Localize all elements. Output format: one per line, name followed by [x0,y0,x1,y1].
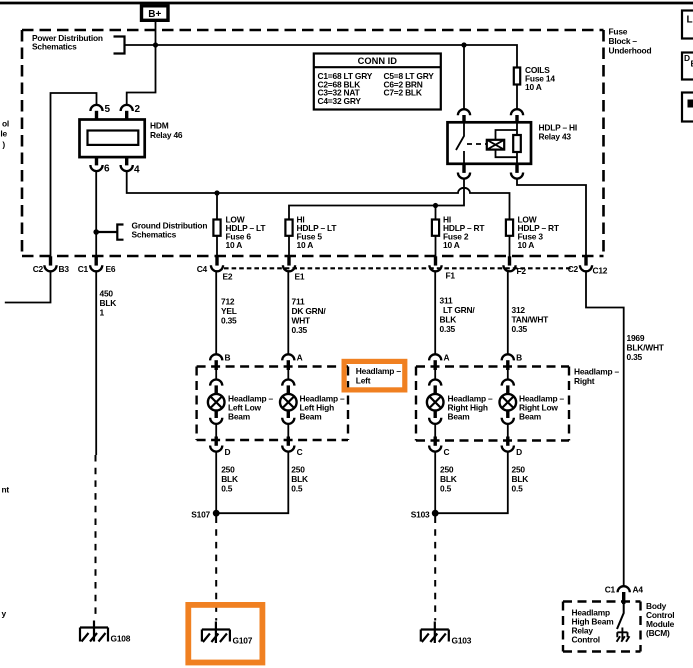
svg-text:(BCM): (BCM) [646,628,670,638]
svg-text:S103: S103 [411,510,430,520]
wire lamp left high beam to exit [287,424,289,437]
wire feed to headlamp left low beam [215,271,217,354]
relay HDM Relay 46 box [80,120,145,158]
wire pin 4 low beam feed rail [127,171,510,219]
svg-text:10 A: 10 A [525,82,542,92]
lamp left low beam [208,394,225,411]
svg-text:Beam: Beam [228,412,250,422]
connector interface dotted line [224,267,572,269]
connector C2 C12 [584,256,587,265]
svg-text:BLK: BLK [440,474,457,484]
wire D right to S103 [435,452,508,514]
svg-text:0.35: 0.35 [440,324,456,334]
svg-text:S107: S107 [191,510,210,520]
svg-text:10 A: 10 A [297,240,314,250]
fuse 2 HI HDLP-RT [432,220,439,236]
connector B headlamp right low beam [502,354,514,360]
svg-text:1: 1 [100,308,105,318]
wire B+ to power rail [155,22,157,46]
svg-text:5: 5 [105,104,111,115]
wire into headlamp right low beam [507,370,509,381]
legend box solid [682,93,693,122]
battery feed B+ box [142,6,169,20]
wire into headlamp left high beam [287,370,289,381]
relay coil loop wiring [496,130,518,157]
svg-text:Relay 46: Relay 46 [150,130,183,140]
connector A headlamp left high beam [282,354,294,360]
relay resistor element [513,135,521,152]
ground G108 [80,621,108,642]
svg-text:C2: C2 [33,264,44,274]
connector C1 A4 BCM [618,586,630,592]
connector D headlamp left low beam [214,437,217,446]
wire B+ rail to pin 2 [127,45,156,105]
fuse 6 LOW HDLP-LT [213,220,220,236]
annotation box headlamp left [344,361,405,390]
svg-text:Control: Control [572,635,600,645]
svg-text:10 A: 10 A [226,240,243,250]
svg-text:250: 250 [291,465,305,475]
svg-text:0.5: 0.5 [291,484,303,494]
wire 3 to connector row [509,236,511,257]
svg-text:0.35: 0.35 [512,324,528,334]
svg-text:LT GRN/: LT GRN/ [443,305,475,315]
headlamp right low beam lower connector [506,410,509,418]
fuse COILS Fuse 14 [514,68,520,85]
svg-text:E1: E1 [295,272,305,282]
connector A headlamp right high beam [429,354,441,360]
svg-text:DK GRN/: DK GRN/ [292,306,327,316]
svg-text:Underhood: Underhood [609,46,652,56]
svg-text:BLK/WHT: BLK/WHT [627,343,665,353]
svg-text:Right: Right [574,376,595,386]
svg-text:G108: G108 [111,634,131,644]
headlamp left low beam inline connector [210,380,222,386]
svg-text:TAN/WHT: TAN/WHT [512,315,550,325]
svg-text:BLK: BLK [440,315,457,325]
svg-text:2: 2 [135,104,141,115]
ground G107 [202,622,230,644]
CONN ID box [314,54,441,110]
svg-text:D: D [684,53,690,63]
wire lamp right high beam to exit [434,424,436,437]
svg-text:0.35: 0.35 [627,352,643,362]
svg-text:ol: ol [2,119,9,129]
HDM relay pin 5 connector [90,105,102,111]
svg-text:BLK: BLK [100,298,117,308]
connector C1 E6 [94,256,97,265]
lamp left high beam [280,394,297,411]
HDM relay coil [88,131,139,145]
svg-text:0.35: 0.35 [292,325,308,335]
ground wire S103 to G103 [434,517,436,621]
wire 2 to connector row [435,236,437,257]
svg-text:A: A [444,353,450,363]
ground wire to G108 [95,455,97,620]
svg-text:C: C [297,447,303,457]
HDLP-HI relay switch [456,123,464,164]
connector B headlamp left low beam [210,354,222,360]
fuse 3 LOW HDLP-RT [506,220,513,236]
wire 5 to connector row [288,236,290,257]
BCM internal ground [617,628,627,641]
svg-text:Relay 43: Relay 43 [539,132,572,142]
svg-text:250: 250 [221,465,235,475]
wire 6 to connector row [216,236,218,257]
svg-text:BLK: BLK [221,474,238,484]
headlamp left low beam lower connector [214,410,217,418]
svg-text:F1: F1 [446,271,456,281]
svg-text:10 A: 10 A [443,240,460,250]
svg-text:312: 312 [512,305,526,315]
svg-text:711: 711 [292,297,305,307]
headlamp right high beam lower connector [434,410,437,418]
HDM relay pin 6 connector [95,157,98,166]
svg-text:BLK: BLK [291,474,308,484]
connector C headlamp right high beam [434,437,437,446]
svg-text:1969: 1969 [627,333,645,343]
headlamp left high beam lower connector [287,410,290,418]
ground distribution schematics label [117,225,123,240]
svg-text:C1: C1 [78,264,89,274]
svg-text:Headlamp –: Headlamp – [574,367,620,377]
svg-text:E6: E6 [106,264,116,274]
junction dot fuse 2 tap [433,203,438,208]
wire lamp left low beam to exit [215,424,217,437]
svg-text:B: B [225,353,231,363]
wire C1 E6 450 BLK [95,271,97,455]
svg-text:): ) [2,140,5,150]
BCM high beam relay driver switch [617,601,624,629]
lamp right high beam [427,394,444,411]
connector E1 [287,256,290,265]
wire tap to fuse 6 [216,193,218,220]
headlamp right high beam inline connector [429,380,441,386]
power rail wire B+ [125,45,518,68]
svg-text:A: A [297,353,303,363]
svg-text:450: 450 [100,289,114,299]
svg-text:Schematics: Schematics [132,230,177,240]
ground G103 [421,622,449,644]
connector C2 B3 [49,256,52,265]
HDM relay pin 2 connector [121,105,133,111]
headlamp right dashed box [416,365,569,367]
svg-text:L: L [687,15,693,26]
annotation box G107 [188,605,262,663]
svg-text:F2: F2 [517,266,527,276]
top border line [0,2,693,5]
wire into headlamp right high beam [434,370,436,381]
svg-text:10 A: 10 A [518,240,535,250]
svg-text:712: 712 [221,297,235,307]
fuse block underhood dashed box [22,29,604,32]
BCM dashed box [563,600,641,602]
relay HDLP-HI Relay 43 box [448,122,532,164]
svg-text:C4=32 GRY: C4=32 GRY [318,96,362,106]
svg-text:0.5: 0.5 [221,484,233,494]
relay actuating link [467,143,486,145]
svg-text:C: C [444,447,450,457]
connector F1 [434,256,437,265]
headlamp left high beam inline connector [282,380,294,386]
svg-text:B3: B3 [59,264,70,274]
svg-text:B+: B+ [148,9,161,20]
HDLP-HI bottom connector switch side [462,163,465,173]
svg-text:YEL: YEL [221,306,237,316]
wire pin 5 to connector C2 B3 [51,93,97,257]
wire into headlamp left low beam [215,370,217,381]
splice S103 [432,510,439,517]
svg-text:C12: C12 [593,266,608,276]
wire relay coil return [517,179,586,257]
svg-text:0.35: 0.35 [221,316,237,326]
svg-text:B: B [516,353,522,363]
wire C right to S103 [434,452,436,514]
svg-text:250: 250 [440,465,454,475]
svg-text:le: le [0,129,7,139]
svg-text:311: 311 [440,296,453,306]
junction dot HDLP-HI feed [461,42,466,47]
svg-text:BLK: BLK [512,474,529,484]
svg-text:0.5: 0.5 [440,484,452,494]
svg-text:nt: nt [1,485,9,495]
svg-text:C1: C1 [605,585,616,595]
connector C4 E2 [215,256,218,265]
HDLP-HI top connector switch side [458,109,470,115]
junction dot ground distribution tap [93,229,99,235]
headlamp right low beam inline connector [502,380,514,386]
connector D headlamp right low beam [506,437,509,446]
svg-text:D: D [225,447,231,457]
svg-text:Beam: Beam [300,412,322,422]
junction dot B+ rail [153,42,158,47]
svg-text:Headlamp –: Headlamp – [356,366,402,376]
wire high beam feed [289,179,464,220]
svg-text:CONN ID: CONN ID [358,56,398,66]
wire D left to S107 [215,452,217,514]
wire rail to HDLP-HI relay switch [463,45,465,109]
legend box D E [682,53,693,80]
svg-text:C2: C2 [568,264,579,274]
svg-text:4: 4 [134,165,140,176]
svg-text:HDM: HDM [150,121,169,131]
wire C left to S107 [216,452,288,514]
svg-text:Block –: Block – [609,36,638,46]
svg-text:6: 6 [104,164,110,175]
HDM relay pin 4 connector [125,157,128,166]
svg-text:Left: Left [356,376,371,386]
splice S107 [213,510,220,517]
svg-text:WHT: WHT [292,316,312,326]
svg-text:Beam: Beam [448,412,470,422]
wire feed to headlamp right low beam [507,271,509,354]
connector F2 [508,256,511,265]
svg-text:0.5: 0.5 [512,484,524,494]
HDLP-HI top connector coil side [511,109,523,115]
headlamp left dashed box [197,365,348,367]
wire fuse 14 to relay coil [516,85,518,110]
HDLP-HI bottom connector coil side [515,163,518,173]
svg-text:A4: A4 [633,585,644,595]
legend box L [682,11,693,39]
connector C headlamp left high beam [287,437,290,446]
svg-text:Fuse: Fuse [609,27,628,37]
svg-text:D: D [516,447,522,457]
svg-text:Beam: Beam [519,412,541,422]
ground wire S107 to G107 [215,517,217,621]
junction dot fuse 6 tap [214,190,219,195]
svg-text:y: y [2,609,7,619]
svg-text:E2: E2 [223,272,233,282]
wire feed to headlamp right high beam [434,271,436,354]
wire C2 B3 exit [5,271,51,302]
svg-text:C4: C4 [197,264,208,274]
svg-text:250: 250 [512,465,526,475]
svg-text:G103: G103 [452,636,472,646]
wire pin 6 to connector C1 E6 [95,171,97,257]
fuse 5 HI HDLP-LT [285,220,292,236]
svg-text:C7=2 BLK: C7=2 BLK [384,88,422,98]
wire feed to headlamp left high beam [287,271,289,354]
relay coil winding [487,140,504,150]
wire lamp right low beam to exit [507,424,509,437]
svg-text:Schematics: Schematics [32,42,77,52]
wire 1969 BLK/WHT to BCM [586,271,624,586]
svg-text:G107: G107 [233,636,253,646]
lamp right low beam [500,394,517,411]
